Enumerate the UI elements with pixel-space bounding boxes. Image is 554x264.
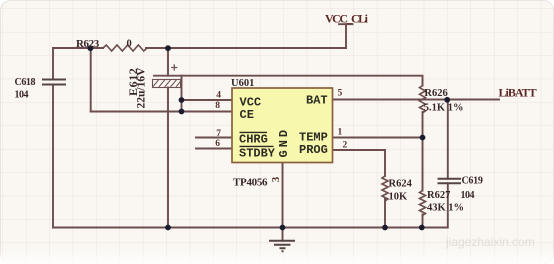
- svg-text:GND: GND: [277, 127, 291, 158]
- wire: pin4 VCC line: [182, 99, 233, 101]
- svg-text:104: 104: [461, 190, 475, 201]
- resistor R627: [420, 191, 426, 216]
- resistor R624: [382, 176, 388, 201]
- svg-text:10K: 10K: [389, 192, 409, 203]
- svg-text:22u/16V: 22u/16V: [136, 67, 148, 109]
- node: ground / R624: [382, 225, 388, 231]
- svg-text:1: 1: [338, 128, 343, 138]
- svg-text:jiagezhaixin.com: jiagezhaixin.com: [445, 235, 535, 249]
- svg-text:4: 4: [216, 91, 221, 101]
- wire: C618 bottom to ground rail: [52, 85, 54, 228]
- node: ground / GND pin: [280, 225, 286, 231]
- node: BAT / C619: [444, 97, 450, 103]
- svg-text:2: 2: [343, 141, 348, 151]
- svg-text:PROG: PROG: [299, 143, 328, 157]
- svg-text:7: 7: [216, 129, 221, 139]
- svg-text:BAT: BAT: [306, 93, 328, 107]
- svg-text:R626: R626: [424, 88, 447, 99]
- ground: [269, 241, 295, 252]
- svg-text:8: 8: [215, 101, 220, 111]
- svg-text:104: 104: [15, 90, 29, 101]
- wire: TEMP line pin1: [333, 137, 423, 139]
- svg-text:CHRG: CHRG: [239, 133, 268, 147]
- wire: BAT line to LiBATT: [333, 99, 500, 101]
- wire: R624 bottom lead: [384, 199, 386, 228]
- svg-text:LiBATT: LiBATT: [499, 85, 537, 99]
- svg-text:6: 6: [215, 139, 220, 149]
- capacitor E612 (polarized): [153, 64, 183, 87]
- node: top rail / E612: [165, 45, 171, 51]
- svg-text:STDBY: STDBY: [239, 147, 276, 161]
- svg-text:0: 0: [127, 39, 132, 50]
- svg-text:43K 1%: 43K 1%: [427, 202, 464, 213]
- wire: PROG line pin2 to R624: [333, 150, 386, 176]
- wire: R626 bottom lead: [422, 112, 424, 138]
- node: ground / R627: [419, 225, 425, 231]
- wire: pin7 stub: [196, 137, 232, 139]
- wire: pin6 stub: [196, 148, 232, 150]
- svg-text:R623: R623: [76, 38, 100, 50]
- wire: VCC_CLi drop: [339, 24, 353, 48]
- svg-text:C618: C618: [15, 77, 36, 88]
- overline STDBY: [240, 145, 274, 147]
- node: TEMP / R626 R627: [420, 135, 426, 141]
- node: ground / E612: [165, 225, 171, 231]
- svg-text:TP4056: TP4056: [233, 177, 268, 189]
- wire: C619 top lead: [447, 100, 449, 179]
- svg-text:5: 5: [338, 89, 343, 99]
- wire: E612 top lead: [167, 48, 169, 76]
- wire: top VCC rail: [53, 47, 346, 49]
- wire: R627 leads: [422, 138, 424, 228]
- node: top rail / CE branch: [88, 45, 94, 51]
- wire: VCC node across to R626: [182, 76, 423, 86]
- resistor R626: [420, 86, 426, 114]
- svg-text:C619: C619: [462, 176, 483, 187]
- wire: E612 bottom lead: [167, 88, 169, 228]
- svg-text:U601: U601: [231, 78, 254, 89]
- wire: ground rail: [53, 183, 448, 227]
- wire: CE branch from top rail: [90, 48, 92, 112]
- svg-text:R624: R624: [389, 179, 413, 190]
- resistor R623: [103, 45, 147, 51]
- wire: GND pin3 lead: [282, 163, 284, 241]
- svg-text:VCC_CLi: VCC_CLi: [325, 11, 369, 25]
- svg-text:3: 3: [270, 176, 282, 182]
- overline CHRG: [240, 131, 268, 133]
- wire: pin8 CE line: [91, 111, 232, 113]
- capacitor C619: [438, 179, 462, 184]
- wire: left rail down to C618: [52, 48, 54, 79]
- node: pin8 junction: [179, 109, 185, 115]
- svg-text:R627: R627: [427, 190, 450, 201]
- op IC U601 TP4056 body: [232, 88, 333, 163]
- node: pin4 junction: [179, 97, 185, 103]
- capacitor C618: [42, 80, 66, 85]
- svg-text:CE: CE: [240, 108, 254, 122]
- svg-text:5.1K 1%: 5.1K 1%: [424, 102, 464, 113]
- wire: plate junction down to pins: [181, 76, 183, 112]
